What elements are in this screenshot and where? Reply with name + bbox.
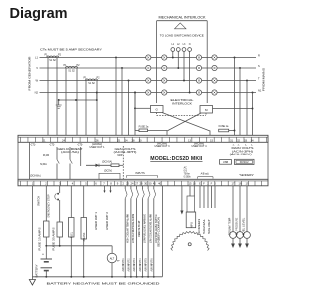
svg-text:Diagram: Diagram [10, 6, 68, 22]
svg-text:+: + [42, 253, 44, 257]
svg-text:24: 24 [62, 138, 66, 142]
svg-text:AUX INPUT 4: AUX INPUT 4 [139, 258, 142, 272]
svg-text:SWITCH: SWITCH [37, 196, 41, 206]
svg-text:25: 25 [117, 138, 121, 142]
svg-text:15: 15 [189, 182, 192, 186]
svg-text:N: N [189, 43, 191, 46]
svg-text:CTs MUST BE 5 AMP SECONDARY: CTs MUST BE 5 AMP SECONDARY [40, 47, 102, 51]
svg-text:(AC8A): (AC8A) [194, 142, 204, 145]
svg-text:CRANK: CRANK [83, 232, 86, 241]
svg-text:A/B adj: A/B adj [201, 173, 209, 176]
svg-text:(DC5V): (DC5V) [104, 170, 112, 173]
svg-text:USER OUT 1: USER OUT 1 [90, 147, 106, 149]
svg-text:AUX INPUT 5: AUX INPUT 5 [145, 258, 148, 272]
svg-text:SIGNAL: SIGNAL [203, 218, 206, 234]
svg-text:FUSE 1a: FUSE 1a [219, 125, 229, 128]
svg-text:-CT3-: -CT3- [77, 143, 83, 146]
svg-text:N1: N1 [258, 88, 262, 92]
svg-text:33: 33 [244, 138, 248, 142]
svg-text:MPU: MPU [190, 222, 194, 228]
svg-text:30: 30 [138, 138, 142, 142]
svg-text:FUSE 30 AMPS: FUSE 30 AMPS [52, 227, 56, 250]
svg-text:SCREEN: SCREEN [198, 219, 201, 234]
svg-text:USER O/P 2: USER O/P 2 [106, 211, 109, 230]
svg-text:AUX INPUT 3: AUX INPUT 3 [133, 258, 136, 272]
svg-text:21: 21 [42, 138, 46, 142]
svg-text:AUX INPUT 1: AUX INPUT 1 [122, 258, 125, 272]
svg-text:LOW OIL PRESSURE ALARM: LOW OIL PRESSURE ALARM [131, 214, 135, 243]
svg-text:23: 23 [126, 182, 129, 186]
svg-text:32: 32 [237, 138, 241, 142]
svg-text:INTERLOCK: INTERLOCK [172, 101, 192, 105]
svg-text:(AC0-280V): (AC0-280V) [230, 153, 252, 156]
svg-text:BATTERY: BATTERY [36, 264, 39, 277]
svg-text:70Var: 70Var [184, 172, 190, 175]
svg-text:16: 16 [193, 182, 196, 186]
svg-text:S: S [258, 64, 260, 68]
svg-text:M,MA: M,MA [40, 163, 47, 166]
svg-text:24: 24 [131, 182, 134, 186]
svg-text:28: 28 [131, 138, 135, 142]
svg-text:19: 19 [246, 182, 249, 186]
svg-text:45: 45 [153, 182, 156, 186]
svg-text:24: 24 [124, 138, 128, 142]
svg-text:AUX INPUT 2: AUX INPUT 2 [128, 258, 131, 272]
svg-text:OIL PRESSURE: OIL PRESSURE [234, 217, 238, 235]
svg-text:18: 18 [239, 182, 242, 186]
svg-text:BATTERY NEGATIVE MUST BE GROUN: BATTERY NEGATIVE MUST BE GROUNDED [47, 281, 161, 285]
svg-text:SENDER COMMON: SENDER COMMON [157, 217, 161, 247]
svg-text:AC: AC [184, 166, 188, 169]
svg-text:SIG.RET: SIG.RET [208, 218, 211, 234]
svg-text:(AC8A): (AC8A) [157, 142, 167, 145]
svg-text:FUEL: FUEL [70, 231, 73, 238]
svg-text:INPUTS: INPUTS [135, 171, 145, 175]
svg-text:S1 S2: S1 S2 [68, 70, 75, 73]
svg-text:AUX INPUT 6: AUX INPUT 6 [150, 258, 153, 272]
svg-text:N2: N2 [35, 91, 39, 95]
svg-text:(AC/N-3PH): (AC/N-3PH) [232, 151, 253, 154]
svg-text:(DC0-5A): (DC0-5A) [102, 160, 112, 163]
svg-text:R: R [258, 53, 260, 57]
svg-text:REMOTE START: REMOTE START [137, 220, 141, 237]
svg-text:40: 40 [158, 182, 161, 186]
svg-text:50: 50 [149, 182, 152, 186]
svg-text:HIGH COOLANT TEMP ALARM: HIGH COOLANT TEMP ALARM [125, 214, 129, 243]
svg-text:13: 13 [188, 138, 192, 142]
svg-text:17: 17 [232, 182, 235, 186]
svg-text:(DC8-60v): (DC8-60v) [30, 176, 41, 178]
svg-text:26: 26 [95, 138, 99, 142]
svg-text:27: 27 [135, 182, 138, 186]
svg-text:DCSU2: DCSU2 [240, 160, 249, 164]
svg-text:(AC8A): (AC8A) [92, 143, 102, 146]
svg-text:MECHANICAL INTERLOCK: MECHANICAL INTERLOCK [159, 15, 207, 19]
svg-text:FROM MAINS: FROM MAINS [262, 68, 266, 91]
svg-text:FUEL LEVEL: FUEL LEVEL [241, 217, 245, 235]
svg-text:FROM GENERATOR: FROM GENERATOR [28, 56, 32, 91]
svg-text:34: 34 [250, 138, 254, 142]
svg-text:USER O/P 1: USER O/P 1 [95, 211, 98, 230]
svg-text:"SENDERS": "SENDERS" [239, 175, 254, 177]
svg-text:USB: USB [223, 160, 229, 164]
svg-text:USER OUT 4: USER OUT 4 [192, 146, 208, 148]
svg-text:S1 S2: S1 S2 [49, 59, 56, 62]
svg-text:-CT2-: -CT2- [49, 143, 55, 146]
svg-text:M,2M: M,2M [43, 154, 49, 157]
svg-text:ALT: ALT [110, 256, 115, 260]
svg-text:FUSE 2a: FUSE 2a [139, 125, 149, 128]
svg-text:L1: L1 [35, 56, 38, 60]
svg-text:E: E [199, 182, 201, 186]
svg-text:FUSE 10 AMPS: FUSE 10 AMPS [38, 227, 42, 250]
svg-text:31: 31 [230, 138, 234, 142]
svg-text:COOLANT TEMP: COOLANT TEMP [227, 217, 231, 235]
svg-text:M2P: M2P [118, 154, 123, 157]
svg-text:TO LOAD SWITCHING DEVICE: TO LOAD SWITCHING DEVICE [160, 33, 204, 37]
svg-text:LOW COOLANT LEVEL ALARM: LOW COOLANT LEVEL ALARM [148, 214, 152, 243]
svg-text:0-280v: 0-280v [184, 176, 192, 178]
svg-text:V: V [36, 66, 38, 70]
svg-text:30: 30 [144, 182, 147, 186]
svg-text:LOW FUEL LEVEL WARNING: LOW FUEL LEVEL WARNING [143, 214, 147, 243]
svg-text:USER OUT 3: USER OUT 3 [155, 146, 171, 148]
svg-text:S1 S2: S1 S2 [88, 82, 95, 85]
svg-text:EMERGENCY STOP: EMERGENCY STOP [47, 194, 51, 217]
svg-text:15: 15 [210, 138, 214, 142]
svg-text:28: 28 [140, 182, 143, 186]
svg-text:-CT1-: -CT1- [30, 143, 36, 146]
